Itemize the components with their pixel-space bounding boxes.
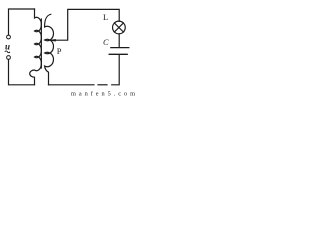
slider arrow head (48, 39, 56, 41)
transformer secondary winding (45, 14, 54, 85)
slider P wire (53, 9, 120, 40)
svg-text:P: P (57, 46, 62, 56)
lamp L circle (113, 21, 126, 34)
wire bottom-left rail (9, 60, 35, 85)
wire lamp to capacitor (118, 34, 120, 47)
AC source terminal top circle (7, 35, 11, 39)
transformer core (40, 19, 42, 68)
label tilde of source (5, 51, 10, 53)
bottom rail solid segment (49, 84, 95, 86)
AC source terminal bottom circle (7, 56, 11, 60)
svg-text:u: u (5, 42, 10, 52)
svg-text:L: L (103, 12, 108, 22)
wire capacitor to bottom rail (112, 55, 120, 85)
capacitor C top plate (111, 47, 129, 49)
svg-text:manfen5.com: manfen5.com (71, 91, 135, 98)
capacitor C bottom plate (109, 53, 127, 55)
lamp X cross (114, 23, 123, 32)
wire top-left rail (9, 9, 35, 35)
transformer primary winding (30, 9, 42, 85)
bottom rail dash segment (98, 84, 107, 86)
svg-text:C: C (103, 37, 109, 47)
